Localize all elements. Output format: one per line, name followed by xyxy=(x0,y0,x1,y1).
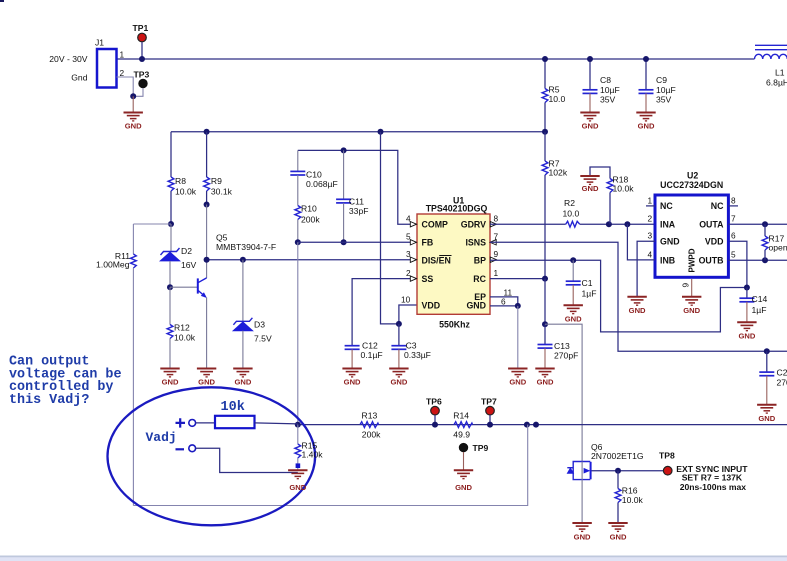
capacitor C11 33pF xyxy=(336,150,368,242)
wire R8 node to R11 xyxy=(133,223,171,225)
svg-text:C10: C10 xyxy=(306,170,322,180)
svg-text:2N7002ET1G: 2N7002ET1G xyxy=(591,451,644,461)
wire Vadj/R13 output net xyxy=(298,424,787,426)
wire Q6 source to GND xyxy=(581,462,583,524)
wire COMP net (C10/C11 top) xyxy=(298,150,417,224)
svg-text:GND: GND xyxy=(198,378,215,387)
junction R17 bottom xyxy=(762,257,768,263)
junction C8/VIN xyxy=(587,56,593,62)
capacitor C12 0.1µF xyxy=(345,341,383,369)
junction return leg b xyxy=(533,422,539,428)
svg-text:2: 2 xyxy=(648,214,653,224)
capacitor C9 10µF 35V xyxy=(639,59,676,113)
svg-text:10.0k: 10.0k xyxy=(175,186,197,196)
inductor L1 6.8µH xyxy=(755,45,787,87)
svg-text:200k: 200k xyxy=(301,215,320,225)
wire Q6 output to TP8 xyxy=(592,470,664,472)
svg-text:GND: GND xyxy=(660,237,680,247)
wire R2 to INA xyxy=(580,223,655,225)
svg-text:MMBT3904-7-F: MMBT3904-7-F xyxy=(216,242,276,252)
transistor Q5 MMBT3904-7-F xyxy=(170,233,276,369)
resistor R7 102k xyxy=(542,132,568,279)
svg-text:VDD: VDD xyxy=(422,300,441,310)
svg-text:ISNS: ISNS xyxy=(465,238,486,248)
svg-text:GND: GND xyxy=(509,378,526,387)
wire INB tie xyxy=(627,224,655,260)
svg-text:GDRV: GDRV xyxy=(461,220,486,230)
resistor R17 open xyxy=(762,224,787,260)
annotation ellipse xyxy=(108,387,316,525)
ground C9 GND xyxy=(636,113,655,131)
svg-text:GND: GND xyxy=(537,378,554,387)
svg-text:GND: GND xyxy=(455,483,472,492)
svg-text:200k: 200k xyxy=(362,429,381,439)
resistor R16 10.0k xyxy=(615,471,643,523)
ground R15 GND xyxy=(288,470,307,492)
svg-text:7: 7 xyxy=(731,214,736,224)
resistor R8 10.0k xyxy=(168,132,197,224)
wire FB to Vadj divider xyxy=(297,242,299,424)
junction R18 bottom xyxy=(606,221,612,227)
junction RC column xyxy=(542,276,548,282)
svg-text:30.1k: 30.1k xyxy=(211,186,233,196)
svg-text:RC: RC xyxy=(473,274,486,284)
junction TP1/VIN xyxy=(139,56,145,62)
svg-text:0.1µF: 0.1µF xyxy=(361,350,383,360)
svg-text:COMP: COMP xyxy=(422,220,449,230)
ground R16 GND xyxy=(608,523,627,542)
ground R12 GND xyxy=(160,369,179,387)
wire VDD rail xyxy=(171,131,545,133)
connector J1 xyxy=(49,38,124,88)
junction return leg xyxy=(524,422,530,428)
ground Q5 emitter GND xyxy=(197,369,216,387)
svg-text:C11: C11 xyxy=(349,196,364,206)
svg-text:R14: R14 xyxy=(453,410,469,420)
junction EP/GND xyxy=(515,303,521,309)
svg-text:TPS40210DGQ: TPS40210DGQ xyxy=(426,204,488,214)
svg-text:C8: C8 xyxy=(600,75,611,85)
junction C11 top xyxy=(341,147,347,153)
svg-text:GND: GND xyxy=(565,314,582,323)
svg-text:8: 8 xyxy=(731,195,736,205)
svg-text:1: 1 xyxy=(120,50,125,60)
wire ISNS net xyxy=(490,242,787,351)
test point TP1 xyxy=(133,23,149,59)
svg-text:D2: D2 xyxy=(181,246,192,256)
svg-text:UCC27324DGN: UCC27324DGN xyxy=(660,180,723,190)
svg-text:GND: GND xyxy=(629,306,646,315)
svg-text:10.0: 10.0 xyxy=(549,94,566,104)
svg-text:PWPD: PWPD xyxy=(688,248,697,272)
wire RC to C13 xyxy=(544,279,546,325)
svg-text:20ns-100ns max: 20ns-100ns max xyxy=(680,482,747,492)
U1 pin 5 arrow xyxy=(406,232,417,245)
svg-text:270: 270 xyxy=(777,378,787,388)
junction input ground node xyxy=(130,93,136,99)
svg-text:C12: C12 xyxy=(362,341,378,351)
wire minus return xyxy=(196,448,298,472)
wire BP net to U2 VDD xyxy=(490,241,747,332)
junction C14 top xyxy=(744,285,750,291)
svg-text:4: 4 xyxy=(648,249,653,259)
wire R11 to Vadj return (left leg) xyxy=(132,268,134,506)
svg-text:TP1: TP1 xyxy=(133,23,149,33)
svg-text:1.40k: 1.40k xyxy=(302,450,324,460)
ground C14 GND xyxy=(737,322,756,340)
svg-text:R2: R2 xyxy=(564,198,575,208)
svg-text:GND: GND xyxy=(683,306,700,315)
junction DIS net / Q5 collector xyxy=(204,257,210,263)
Vadj plus terminal xyxy=(176,418,196,427)
svg-text:R13: R13 xyxy=(362,410,378,420)
svg-text:R9: R9 xyxy=(211,176,222,186)
svg-text:VDD: VDD xyxy=(705,237,724,247)
ground U2 GND pin xyxy=(627,297,646,315)
junction R9 bottom xyxy=(204,202,210,208)
svg-text:8: 8 xyxy=(494,214,499,224)
U2 pin 3 stub xyxy=(637,231,655,297)
resistor R2 10.0 xyxy=(563,198,580,227)
svg-text:GND: GND xyxy=(638,122,655,131)
svg-text:1µF: 1µF xyxy=(752,305,767,315)
svg-text:GND: GND xyxy=(390,378,407,387)
capacitor C3 0.33µF xyxy=(391,324,431,369)
junction DIS net / D3 xyxy=(240,257,246,263)
svg-text:NC: NC xyxy=(660,201,673,211)
wire Vadj return loop xyxy=(133,425,527,506)
ground C12 GND xyxy=(342,369,361,387)
U2 pin 9 stub xyxy=(681,279,692,297)
svg-text:0.33µF: 0.33µF xyxy=(404,350,431,360)
svg-text:GND: GND xyxy=(344,378,361,387)
ground C2 GND xyxy=(757,405,776,423)
resistor R14 49.9 xyxy=(453,410,472,439)
svg-text:TP3: TP3 xyxy=(134,70,150,80)
U1 pin 8 arrow xyxy=(490,214,498,227)
junction C1 top xyxy=(570,257,576,263)
svg-text:10µF: 10µF xyxy=(600,85,620,95)
ground D3 GND xyxy=(233,369,252,387)
svg-text:TP6: TP6 xyxy=(426,396,442,406)
svg-text:16V: 16V xyxy=(181,260,197,270)
svg-text:OUTB: OUTB xyxy=(699,256,724,266)
svg-text:1: 1 xyxy=(648,195,653,205)
svg-text:6: 6 xyxy=(731,231,736,241)
junction VDD feed xyxy=(378,129,384,135)
wire OUTB net xyxy=(728,249,787,260)
resistor 10k (box style) xyxy=(196,400,298,428)
svg-text:35V: 35V xyxy=(600,94,616,104)
junction R17 top xyxy=(762,221,768,227)
svg-text:INA: INA xyxy=(660,220,676,230)
svg-text:Vadj: Vadj xyxy=(146,430,177,445)
svg-text:TP7: TP7 xyxy=(481,396,497,406)
capacitor C1 1µF xyxy=(566,260,597,305)
svg-text:GND: GND xyxy=(234,378,251,387)
ground TP9 GND xyxy=(454,470,473,492)
junction R8/D2/R11 xyxy=(168,221,174,227)
ground C13 GND xyxy=(535,369,554,387)
junction C2 top xyxy=(764,348,770,354)
svg-text:C13: C13 xyxy=(554,341,570,351)
svg-text:4: 4 xyxy=(406,214,411,224)
svg-text:1µF: 1µF xyxy=(582,289,597,299)
resistor R12 10.0k xyxy=(167,287,196,368)
zener diode D2 16V xyxy=(160,224,196,287)
svg-text:GND: GND xyxy=(582,184,599,193)
svg-text:0.068µF: 0.068µF xyxy=(306,179,338,189)
junction R5/R7 xyxy=(542,129,548,135)
svg-text:7.5V: 7.5V xyxy=(254,334,272,344)
ground C8 GND xyxy=(580,113,599,131)
ground U2 pin9 GND xyxy=(682,297,701,315)
wire SS net xyxy=(352,279,417,346)
svg-text:R10: R10 xyxy=(301,204,317,214)
svg-text:49.9: 49.9 xyxy=(453,429,470,439)
wire VIN top rail xyxy=(117,58,755,60)
resistor R11 1.00Meg xyxy=(96,224,136,270)
junction C11/FB xyxy=(341,239,347,245)
svg-text:GND: GND xyxy=(738,332,755,341)
svg-text:5: 5 xyxy=(406,232,411,242)
svg-text:3: 3 xyxy=(406,249,411,259)
svg-text:6: 6 xyxy=(501,296,506,306)
ground Q6 GND xyxy=(572,523,591,542)
capacitor C2 270µF xyxy=(759,351,787,404)
svg-text:DIS/EN: DIS/EN xyxy=(422,255,451,265)
svg-text:10: 10 xyxy=(401,294,411,304)
svg-text:GND: GND xyxy=(758,414,775,423)
capacitor C14 1µF xyxy=(739,288,767,323)
capacitor C13 270pF xyxy=(538,324,579,368)
svg-text:GND: GND xyxy=(289,483,306,492)
U1 pin 4 arrow xyxy=(406,214,417,227)
resistor R13 200k xyxy=(360,410,381,439)
test point TP8 xyxy=(659,450,675,475)
svg-text:2: 2 xyxy=(406,268,411,278)
svg-text:102k: 102k xyxy=(549,168,568,178)
svg-text:Gnd: Gnd xyxy=(71,73,87,83)
svg-text:GND: GND xyxy=(610,533,627,542)
wire sync net RC to Q6 drain xyxy=(545,324,582,461)
wire OUTA net xyxy=(728,214,787,225)
ground input GND xyxy=(124,96,143,130)
junction D2/Q5 base/R12 xyxy=(167,284,173,290)
svg-text:GND: GND xyxy=(125,122,142,131)
transistor Q6 2N7002ET1G xyxy=(567,442,644,480)
svg-text:D3: D3 xyxy=(254,320,265,330)
svg-text:R5: R5 xyxy=(549,85,560,95)
svg-text:6.8µH: 6.8µH xyxy=(766,78,787,88)
svg-text:J1: J1 xyxy=(95,38,104,48)
wire FB net xyxy=(298,241,417,243)
junction R16 top xyxy=(615,468,621,474)
svg-text:FB: FB xyxy=(422,238,434,248)
svg-text:35V: 35V xyxy=(656,94,672,104)
U2 pin 8 stub xyxy=(728,195,738,206)
svg-text:Q5: Q5 xyxy=(216,233,228,243)
U1 pin 9 arrow xyxy=(490,249,498,262)
U1 pin 3 arrow xyxy=(406,249,417,262)
wire VDD pin net xyxy=(399,305,417,324)
wire GDRV net xyxy=(490,223,566,225)
svg-text:GND: GND xyxy=(466,300,486,310)
zener diode D3 7.5V xyxy=(233,260,272,369)
svg-text:3: 3 xyxy=(648,231,653,241)
svg-text:GND: GND xyxy=(582,122,599,131)
U1 pin 2 arrow xyxy=(406,268,417,281)
svg-text:20V - 30V: 20V - 30V xyxy=(49,54,87,64)
junction C13 top xyxy=(542,321,548,327)
wire VDD feed from rail xyxy=(381,132,399,324)
test point TP7 xyxy=(481,396,497,424)
svg-text:9: 9 xyxy=(681,283,691,288)
resistor R5 10.0 xyxy=(542,59,565,132)
resistor R18 10.0k xyxy=(590,167,634,224)
window bottom strip xyxy=(0,557,787,561)
svg-text:TP8: TP8 xyxy=(659,450,675,460)
test point TP9 xyxy=(459,443,488,470)
decorative corner mark xyxy=(0,0,4,2)
junction INA/INB tie xyxy=(624,221,630,227)
junction divider node xyxy=(295,422,301,428)
Vadj minus terminal xyxy=(176,445,196,452)
window bottom edge xyxy=(0,556,787,558)
U2 pin 1 stub xyxy=(646,195,655,206)
svg-text:C1: C1 xyxy=(582,278,593,288)
capacitor C8 10µF 35V xyxy=(583,59,620,113)
junction C9/VIN xyxy=(643,56,649,62)
svg-text:7: 7 xyxy=(494,232,499,242)
resistor R15 1.40k xyxy=(295,425,323,471)
test point TP3 xyxy=(133,70,149,97)
svg-text:10k: 10k xyxy=(221,400,245,415)
svg-text:C9: C9 xyxy=(656,75,667,85)
ground R18 GND xyxy=(580,176,599,193)
svg-text:BP: BP xyxy=(474,255,486,265)
ground C1 GND xyxy=(564,305,583,323)
U1 pin name DIS/EN xyxy=(422,255,452,265)
junction TP7 xyxy=(487,422,493,428)
svg-text:10.0: 10.0 xyxy=(563,209,580,219)
svg-text:C2: C2 xyxy=(777,368,787,378)
IC U2 UCC27324DGN body xyxy=(655,171,728,278)
svg-text:open: open xyxy=(769,243,787,253)
svg-text:TP9: TP9 xyxy=(473,443,489,453)
svg-text:this Vadj?: this Vadj? xyxy=(9,393,89,408)
svg-text:1.00Meg: 1.00Meg xyxy=(96,260,130,270)
svg-text:1: 1 xyxy=(494,268,499,278)
ground U1 GND xyxy=(508,306,527,387)
svg-text:C14: C14 xyxy=(752,294,768,304)
test point TP6 xyxy=(426,396,442,424)
svg-text:270pF: 270pF xyxy=(554,351,578,361)
ground C3 GND xyxy=(389,369,408,387)
wire EP/GND pins of U1 xyxy=(490,297,518,306)
svg-text:U2: U2 xyxy=(687,171,698,181)
op-amp U1 TPS40210DGQ body xyxy=(417,196,490,330)
svg-text:33pF: 33pF xyxy=(349,206,369,216)
svg-text:NC: NC xyxy=(711,201,724,211)
svg-text:OUTA: OUTA xyxy=(699,220,724,230)
note EXT SYNC INPUT xyxy=(676,464,748,492)
capacitor C10 0.068µF xyxy=(290,150,337,205)
svg-text:10.0k: 10.0k xyxy=(622,495,644,505)
svg-text:GND: GND xyxy=(162,378,179,387)
svg-text:SS: SS xyxy=(422,274,434,284)
junction VDD/C3 xyxy=(396,321,402,327)
svg-text:C3: C3 xyxy=(406,341,417,351)
junction R10/FB xyxy=(295,239,301,245)
svg-text:550Khz: 550Khz xyxy=(439,320,470,330)
svg-text:10.0k: 10.0k xyxy=(613,184,635,194)
svg-text:10.0k: 10.0k xyxy=(174,332,196,342)
wire RC net xyxy=(490,278,545,280)
U1 pin 7 arrow xyxy=(490,232,499,245)
wire R9 to Q5 collector node xyxy=(206,205,208,260)
svg-text:INB: INB xyxy=(660,256,675,266)
resistor R10 200k xyxy=(295,204,320,243)
junction R5/VIN xyxy=(542,56,548,62)
svg-text:GND: GND xyxy=(574,533,591,542)
svg-text:L1: L1 xyxy=(775,68,785,78)
svg-text:R12: R12 xyxy=(174,323,190,333)
resistor R9 30.1k xyxy=(204,132,233,205)
svg-text:5: 5 xyxy=(731,249,736,259)
svg-text:R8: R8 xyxy=(175,176,186,186)
svg-text:10µF: 10µF xyxy=(656,85,676,95)
wire J1 pin2 to ground node xyxy=(117,77,134,96)
svg-text:9: 9 xyxy=(494,249,499,259)
wire DIS/EN net xyxy=(207,259,417,261)
junction TP6 xyxy=(432,422,438,428)
junction R9 top xyxy=(204,129,210,135)
